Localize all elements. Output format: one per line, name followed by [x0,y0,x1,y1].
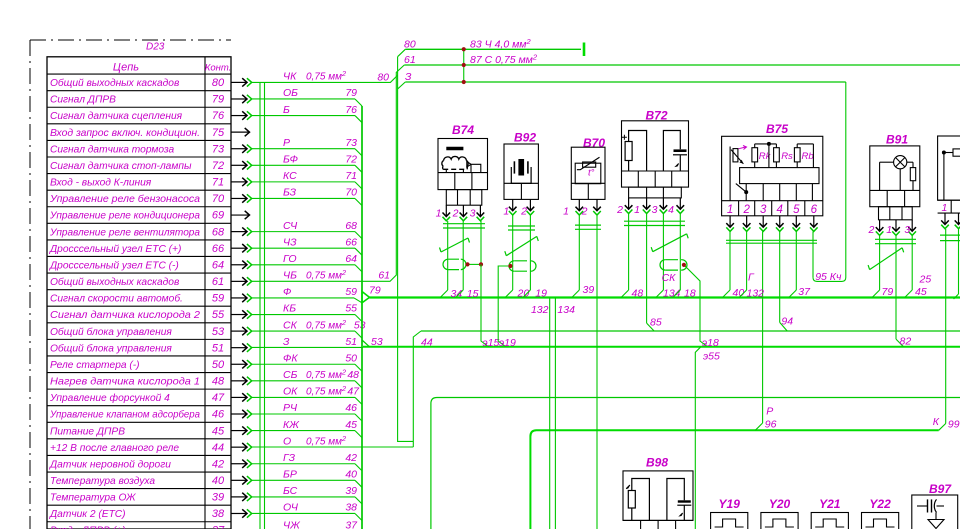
svg-text:64: 64 [345,253,357,265]
svg-text:Управление клапаном адсорбера: Управление клапаном адсорбера [49,409,200,421]
wire РЧ pin 46 [252,413,355,415]
pin 66 arrow [231,247,247,249]
wire СБ pin 48 [252,380,355,382]
svg-text:Датчик 2 (ЕТС): Датчик 2 (ЕТС) [49,509,126,520]
svg-text:Р: Р [766,406,773,418]
wire 134 drop to B98 area [554,298,556,529]
B92 shield symbol [514,261,522,271]
svg-text:134: 134 [663,288,681,300]
svg-text:87 С 0,75 мм2: 87 С 0,75 мм2 [470,53,538,67]
svg-text:6: 6 [811,204,818,216]
svg-text:э18: э18 [702,337,719,349]
wire join at right edge [954,294,959,299]
top bus interconnect with junctions [463,49,465,82]
B74 shield drain [468,263,482,265]
pin 39 arrow [231,496,247,498]
B98 pin cells [623,519,693,521]
B75 potentiometer [729,147,731,201]
wire 40 join [723,290,731,298]
svg-text:42: 42 [345,452,357,464]
svg-text:1: 1 [563,206,569,218]
wire 44 riser x413.3 [413,331,421,447]
svg-text:СЧ: СЧ [283,220,298,232]
pin 71 arrow [231,181,247,183]
svg-text:73: 73 [212,143,225,155]
svg-text:Датчик неровной дороги: Датчик неровной дороги [49,459,171,470]
svg-text:Р: Р [283,137,290,149]
wire СК pin 53 [252,330,355,332]
svg-text:48: 48 [347,369,359,381]
ECU D23 boundary (dash-dot) [30,39,231,41]
pin 61 arrow [231,280,247,282]
svg-text:ЧЗ: ЧЗ [283,236,297,248]
svg-text:БФ: БФ [283,154,298,166]
svg-text:80: 80 [212,77,225,89]
B70 thermistor symbol [575,163,601,184]
svg-text:40: 40 [212,475,225,487]
wire 39 join [572,290,580,298]
svg-text:80: 80 [404,38,416,50]
B92 twisted pair slash [506,236,537,255]
B91 twisted pair slash [870,248,903,270]
wire ЧЗ pin 66 [252,247,355,249]
svg-text:1: 1 [727,204,733,216]
B74 pin cells [438,172,488,174]
svg-text:ОЧ: ОЧ [283,502,299,514]
svg-text:3: 3 [904,224,910,236]
wire э55 drop from bus C [695,347,701,529]
pin 70 arrow [231,197,247,199]
svg-text:КЖ: КЖ [283,419,300,431]
svg-text:К: К [933,416,940,428]
wire 48 join [621,290,629,298]
wire ФК pin 50 [252,363,355,365]
svg-text:0,75 мм2: 0,75 мм2 [306,368,346,382]
B72 pin 2 arrow [628,198,630,209]
svg-text:68: 68 [212,226,225,238]
svg-text:СБ: СБ [283,369,298,381]
svg-text:76: 76 [345,104,357,116]
wire К 99 at end of bus E [939,424,946,431]
svg-text:Сигнал датчика стоп-лампы: Сигнал датчика стоп-лампы [50,161,192,172]
svg-text:БР: БР [283,469,297,481]
wire 19 join [523,290,531,298]
svg-text:99: 99 [948,419,960,431]
B98 internal circuit [632,479,650,521]
svg-text:51: 51 [212,342,224,354]
svg-text:Y19: Y19 [719,497,741,511]
svg-text:80: 80 [377,72,389,84]
svg-text:Общий выходных каскадов: Общий выходных каскадов [50,77,180,89]
harness bus D [431,398,960,404]
harness bus C [363,346,960,348]
top bus wire З [405,81,846,83]
B74 pin 3 arrow [479,205,481,216]
B91 pin wires [879,236,881,290]
B72 shield drain to э18 [684,265,708,347]
svg-text:0,75 мм2: 0,75 мм2 [306,384,346,398]
B75 pin wires [729,232,731,291]
B91 harness connector [879,207,913,220]
svg-text:45: 45 [212,425,225,437]
B70 pin wires [578,216,580,291]
wire Р 96 to bus E [755,423,762,430]
svg-text:B75: B75 [766,122,788,136]
svg-text:3: 3 [470,208,476,220]
svg-text:18: 18 [684,288,696,300]
bus E drop to page bottom [529,437,531,529]
wire 15 join [456,290,464,298]
wire Р pin 73 [252,148,355,150]
svg-text:Общий блока управления: Общий блока управления [50,326,172,338]
wire Б pin 76 [252,115,355,117]
pin 53 arrow [231,330,247,332]
B92 pin 2 arrow [529,199,531,210]
svg-text:48: 48 [212,376,225,388]
svg-text:2: 2 [867,224,874,236]
svg-text:КБ: КБ [283,303,296,315]
svg-text:Rs: Rs [781,151,793,162]
svg-text:75: 75 [212,127,225,139]
svg-text:Управление реле вентилятора: Управление реле вентилятора [49,227,200,238]
right component pin 1 arrow [944,213,946,224]
svg-text:2: 2 [742,204,750,216]
pin 42 arrow [231,463,247,465]
svg-text:1: 1 [886,224,892,236]
pin 55 arrow [231,314,247,316]
svg-text:Общий выходных каскадов: Общий выходных каскадов [50,276,180,288]
wire Г 132 join [739,290,747,298]
wire 37 join [789,290,797,298]
B75 pin 4 arrow [779,216,781,227]
svg-text:25: 25 [919,273,932,285]
svg-text:1: 1 [941,202,947,214]
pin 69 arrow [231,214,250,216]
svg-text:96: 96 [765,418,777,430]
svg-text:38: 38 [212,508,225,520]
svg-text:Сигнал ДПРВ: Сигнал ДПРВ [50,95,116,106]
pin 51 arrow [231,347,247,349]
svg-text:45: 45 [915,286,927,298]
wire 34 join [440,290,448,298]
right edge component (cut off) [938,136,960,200]
svg-text:Y22: Y22 [869,497,891,511]
svg-text:ЧБ: ЧБ [283,270,297,282]
B97 diode symbol [928,513,944,529]
pin 59 arrow [231,297,247,299]
B75 pin cells [722,200,823,202]
svg-text:72: 72 [212,160,224,172]
svg-text:ГЗ: ГЗ [283,452,296,464]
B72 harness connector [629,187,682,198]
right component pin cells [938,199,960,201]
B75 pin 6 arrow [813,216,815,227]
wire 85 to bus B [647,323,655,331]
wire СЧ pin 68 [252,231,355,233]
svg-text:Дросссельный узел ЕТС (+): Дросссельный узел ЕТС (+) [49,244,181,255]
svg-text:132: 132 [747,288,765,300]
B75 pin 5 arrow [795,216,797,227]
svg-text:Ф: Ф [283,286,291,298]
svg-text:50: 50 [212,359,225,371]
svg-text:61: 61 [378,270,390,282]
svg-text:70: 70 [212,193,225,205]
svg-text:B70: B70 [583,136,605,150]
svg-text:39: 39 [212,492,224,504]
wire З pin 51 becoming harness C [252,346,363,348]
svg-text:3: 3 [760,204,767,216]
top bus wire 80 / 83 [405,48,581,50]
svg-text:61: 61 [404,54,416,66]
svg-text:73: 73 [345,137,357,149]
svg-text:53: 53 [371,336,383,348]
svg-text:37: 37 [798,286,811,298]
right component pin wires [945,229,947,424]
B72 shield symbol [665,260,673,270]
svg-text:ОК: ОК [283,386,298,398]
svg-text:69: 69 [212,210,224,222]
B72 pin 1 arrow [646,198,648,209]
svg-text:51: 51 [345,336,357,348]
harness bus B [421,330,960,332]
svg-text:Температура ОЖ: Температура ОЖ [50,493,136,504]
svg-text:СК: СК [283,319,298,331]
B70 pin cells [571,182,605,184]
svg-text:40: 40 [345,469,357,481]
svg-text:0,75 мм2: 0,75 мм2 [306,69,346,83]
B74 harness connector [446,190,482,206]
svg-text:1: 1 [436,208,442,220]
vertical harness bundle at x362 [361,106,363,529]
B75 resistors Rk Rs Rb [752,148,758,162]
B74 internal symbol [446,147,463,150]
B75 pin 3 arrow [762,216,764,227]
connector D23 pin table [47,57,231,529]
wire ГЗ pin 42 [252,463,355,465]
svg-text:Сигнал датчика сцепления: Сигнал датчика сцепления [50,111,183,122]
pin 72 arrow [231,164,247,166]
svg-text:64: 64 [212,259,224,271]
wire О pin 44 to riser [252,446,413,448]
B72 pin wires [628,214,630,290]
wire БФ pin 72 [252,164,355,166]
B92 shield drain to э19 [498,266,510,347]
svg-text:0,75 мм2: 0,75 мм2 [306,318,346,332]
svg-text:2: 2 [581,206,588,218]
svg-text:5: 5 [793,204,800,216]
B74 pin wires [447,221,449,290]
terminal of wire 83 [583,43,586,57]
svg-text:Сигнал датчика тормоза: Сигнал датчика тормоза [50,144,175,155]
wire 94 to bus B [780,322,788,331]
svg-text:Б: Б [283,104,290,116]
svg-text:48: 48 [632,288,644,300]
svg-text:4: 4 [777,204,783,216]
wire ГО pin 64 [252,264,355,266]
vertical feeder wire 87 [264,82,266,529]
svg-text:Управление реле бензонасоса: Управление реле бензонасоса [49,193,200,205]
B72 pin 3 arrow [662,198,664,209]
svg-text:79: 79 [882,286,894,298]
svg-text:53: 53 [354,319,366,331]
svg-text:79: 79 [369,285,381,297]
pin 47 arrow [231,396,247,398]
wire КС pin 71 [252,181,355,183]
svg-text:70: 70 [345,187,357,199]
svg-text:37: 37 [345,520,358,529]
svg-text:БС: БС [283,485,298,497]
B91 pin 1 arrow [895,220,897,231]
wire 132 drop to B98 area [549,298,551,529]
svg-text:Сигнал датчика кислорода 2: Сигнал датчика кислорода 2 [50,310,200,321]
pin 48 arrow [231,380,247,382]
svg-text:КС: КС [283,170,297,182]
svg-text:ФК: ФК [283,352,298,364]
svg-text:47: 47 [347,386,360,398]
svg-text:47: 47 [212,392,225,404]
svg-text:ГО: ГО [283,253,297,265]
svg-text:B98: B98 [646,456,668,470]
svg-text:59: 59 [345,286,357,298]
svg-text:СК: СК [662,272,677,284]
shield wire э15 to bus C [481,264,489,346]
svg-text:66: 66 [212,243,225,255]
B92 internal symbol (knock sensor) [518,159,524,176]
pin 38 arrow [231,512,247,514]
svg-text:Конт.: Конт. [205,63,232,74]
pin 44 arrow [231,446,247,448]
svg-text:1: 1 [503,206,509,218]
wire to page bottom from B70 pin 2 [596,216,598,529]
B92 pin wires [512,216,514,291]
svg-text:э55: э55 [703,351,720,363]
wire ЧБ pin 61 to top bus 61 [252,65,404,281]
svg-text:34: 34 [451,288,463,300]
wire Ф pin 59 joining harness A [252,297,354,299]
harness A start junction triangle [362,292,370,303]
svg-text:2: 2 [616,204,623,216]
svg-text:71: 71 [212,177,224,189]
svg-text:Rb: Rb [802,151,814,162]
pin 50 arrow [231,363,247,365]
wire ОБ pin 79 [252,98,355,100]
svg-text:40: 40 [733,287,745,299]
wire БС pin 39 [252,496,355,498]
svg-text:38: 38 [345,502,357,514]
svg-text:44: 44 [212,442,224,454]
B74 pin 2 arrow [462,205,464,216]
svg-text:ЧЖ: ЧЖ [283,520,301,529]
svg-text:55: 55 [345,303,357,315]
B91 pin 2 arrow [879,220,881,231]
pin 73 arrow [231,148,247,150]
B72 twisted pair slash [653,234,687,252]
svg-text:Сигнал скорости автомоб.: Сигнал скорости автомоб. [50,293,183,305]
B74 twisted pair slash [441,238,468,252]
svg-text:ЧК: ЧК [283,71,297,83]
wire КЖ pin 45 [252,430,355,432]
B72 internal circuit [629,131,647,172]
wire БР pin 40 [252,479,355,481]
svg-text:Rk: Rk [759,151,772,162]
svg-text:Нагрев датчика кислорода 1: Нагрев датчика кислорода 1 [50,377,200,388]
B91 pin cells [870,189,920,191]
svg-text:РЧ: РЧ [283,402,298,414]
pin 64 arrow [231,264,247,266]
svg-text:Y20: Y20 [769,497,791,511]
svg-text:55: 55 [212,309,225,321]
wire 95 Кч from bus З [813,82,846,281]
svg-text:45: 45 [345,419,357,431]
svg-text:0,75 мм2: 0,75 мм2 [306,434,346,448]
svg-text:37: 37 [212,525,225,529]
svg-text:79: 79 [212,94,224,106]
svg-text:66: 66 [345,236,357,248]
wire 45 join [905,290,913,298]
pin 46 arrow [231,413,247,415]
svg-text:61: 61 [212,276,224,288]
wire 20 join [505,290,513,298]
svg-text:4: 4 [668,204,674,216]
svg-text:э19: э19 [499,337,516,349]
top bus wire 61 / 87 [404,64,960,66]
svg-text:71: 71 [345,170,357,182]
B91 lamp symbol [894,156,907,169]
wire ЧК pin 80 to top bus 80 [252,75,398,82]
right component internals [942,151,946,155]
svg-text:э15: э15 [483,337,500,349]
svg-text:Реле стартера (-): Реле стартера (-) [50,360,140,371]
svg-text:95 Кч: 95 Кч [815,271,842,283]
svg-text:Общий блока управления: Общий блока управления [50,342,172,354]
svg-text:Управление форсункой 4: Управление форсункой 4 [49,392,170,404]
B75 internal wiring [755,143,777,145]
svg-text:68: 68 [345,220,357,232]
B91 internal wiring [880,161,894,163]
svg-text:134: 134 [557,304,575,316]
wire 134 join [656,290,664,298]
svg-text:94: 94 [781,315,793,327]
wire 79 join [872,290,880,298]
svg-text:53: 53 [212,326,225,338]
svg-text:Вход запрос включ. кондицион.: Вход запрос включ. кондицион. [50,128,200,139]
svg-text:1: 1 [634,204,640,216]
B75 pin 2 arrow [746,216,748,227]
B70 pin 2 arrow [596,199,598,210]
svg-text:46: 46 [212,409,225,421]
right component pin 2 arrow [958,213,960,224]
svg-text:B92: B92 [514,131,536,145]
B75 stubs to cells [745,184,747,201]
bus D drop to page bottom [430,404,432,529]
B92 pin cells [504,182,538,184]
B91 pin 3 arrow [911,220,913,231]
svg-text:76: 76 [212,110,225,122]
svg-text:0,75 мм2: 0,75 мм2 [306,268,346,282]
svg-text:Цепь: Цепь [113,62,139,74]
wire 82 to bus C [896,339,904,347]
pin 76 arrow [231,115,247,117]
svg-text:З: З [283,336,290,348]
B74 shield symbol [448,259,454,269]
B92 pin 1 arrow [512,199,514,210]
svg-text:Y21: Y21 [819,497,841,511]
svg-text:Вход - выход К-линия: Вход - выход К-линия [50,178,152,189]
vertical feeder wire 83 [259,82,261,529]
svg-text:B91: B91 [886,133,908,147]
B70 pin 1 arrow [578,199,580,210]
wire КБ pin 55 [252,314,355,316]
